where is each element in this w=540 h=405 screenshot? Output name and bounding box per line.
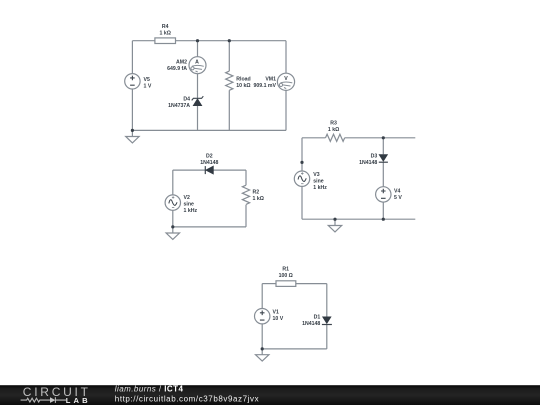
- logo wire + resistor squiggle + diode: [21, 397, 66, 403]
- V2 sine symbol: [169, 200, 177, 206]
- diode D1: [322, 317, 332, 325]
- wire R4 to top-right corner: [176, 40, 287, 42]
- ground (circuit 2): [166, 227, 179, 240]
- voltage source V4: [376, 187, 391, 202]
- svg-text:liam.burns / ICT4: liam.burns / ICT4: [115, 384, 184, 393]
- svg-text:D1: D1: [314, 315, 321, 321]
- diode D3: [379, 155, 388, 163]
- svg-text:1N4148: 1N4148: [302, 321, 320, 327]
- zener diode D4: [192, 96, 204, 105]
- svg-text:10 kΩ: 10 kΩ: [236, 83, 250, 89]
- wire VM1 bottom: [285, 90, 287, 130]
- resistor R1 (box): [276, 281, 296, 287]
- svg-text:10 V: 10 V: [273, 316, 284, 322]
- svg-text:649.9 fA: 649.9 fA: [167, 66, 187, 72]
- junction dot circuit 4: [261, 347, 264, 350]
- wire V4 to bottom: [382, 202, 384, 219]
- wire top rail left of D2: [173, 169, 206, 171]
- sine source V3: [294, 171, 309, 186]
- svg-text:1 V: 1 V: [144, 84, 152, 90]
- ground (circuit 4): [256, 349, 269, 361]
- svg-text:R3: R3: [330, 120, 337, 126]
- voltmeter VM1 meter face: [279, 82, 292, 89]
- svg-text:VM1: VM1: [265, 76, 276, 82]
- svg-text:909.1 mV: 909.1 mV: [254, 83, 277, 89]
- V3 sine symbol: [298, 176, 306, 182]
- wire top rail right of R1: [296, 283, 327, 285]
- svg-text:R4: R4: [162, 24, 169, 30]
- resistor R3 (zigzag): [326, 134, 345, 141]
- V4 plus/minus: [381, 189, 386, 199]
- svg-text:LAB: LAB: [66, 396, 91, 405]
- wire left vertical top: [301, 138, 303, 171]
- resistor Rload (zigzag): [226, 71, 233, 90]
- svg-text:1N4148: 1N4148: [200, 160, 218, 166]
- ammeter AM2 meter face: [191, 65, 204, 72]
- wire top rail right of R3: [345, 137, 416, 139]
- svg-text:V1: V1: [273, 310, 279, 316]
- wire bottom rail: [302, 218, 415, 220]
- wire D3 branch top: [382, 138, 384, 155]
- wire top-left segment to R4: [132, 40, 155, 42]
- wire top rail right of D2: [213, 169, 246, 171]
- V1 plus/minus: [260, 311, 265, 321]
- wire left vertical top: [261, 284, 263, 309]
- V5 plus/minus: [130, 76, 135, 86]
- voltage source V5: [125, 74, 140, 89]
- wire top rail left of R1: [262, 283, 276, 285]
- svg-text:D2: D2: [206, 153, 213, 159]
- svg-text:V5: V5: [144, 77, 150, 83]
- junction dots circuit 1: [196, 39, 199, 42]
- wire right vertical bottom: [326, 325, 328, 349]
- svg-text:1 kΩ: 1 kΩ: [160, 31, 171, 37]
- wire left vertical bottom: [301, 186, 303, 219]
- svg-text:Rload: Rload: [236, 76, 250, 82]
- junction dot circuit 2: [171, 225, 174, 228]
- svg-text:1 kHz: 1 kHz: [313, 185, 327, 191]
- svg-text:D3: D3: [371, 154, 378, 160]
- resistor R4 (box): [155, 38, 176, 44]
- svg-text:1N4148: 1N4148: [359, 160, 377, 166]
- ground (circuit 3): [328, 219, 341, 232]
- svg-text:http://circuitlab.com/c37b8v9a: http://circuitlab.com/c37b8v9az7jvx: [115, 394, 259, 403]
- ammeter AM2: [189, 57, 206, 74]
- wire Rload bottom: [228, 90, 230, 130]
- wire bottom rail: [173, 226, 246, 228]
- resistor R2 (zigzag): [242, 185, 249, 204]
- wire zener to bottom: [197, 106, 199, 131]
- svg-text:V4: V4: [394, 189, 400, 195]
- wire VM1 branch top: [285, 41, 287, 73]
- svg-text:sine: sine: [313, 178, 323, 184]
- svg-text:AM2: AM2: [176, 60, 187, 66]
- sine source V2: [165, 195, 180, 210]
- svg-text:V2: V2: [184, 195, 190, 201]
- wire D3 to V4: [382, 162, 384, 187]
- wire left vertical bottom: [172, 210, 174, 227]
- svg-text:V: V: [284, 76, 288, 82]
- wire left vertical (V5 to bottom): [131, 89, 133, 130]
- svg-text:sine: sine: [184, 201, 194, 207]
- wire right vertical top: [326, 284, 328, 317]
- svg-text:1 kΩ: 1 kΩ: [328, 127, 339, 133]
- svg-text:R1: R1: [282, 267, 289, 273]
- wire top rail left of R3: [302, 137, 326, 139]
- wire bottom rail: [262, 348, 327, 350]
- wire left vertical top: [172, 170, 174, 195]
- svg-text:V3: V3: [313, 172, 319, 178]
- svg-text:A: A: [195, 60, 199, 66]
- svg-text:5 V: 5 V: [394, 195, 402, 201]
- wire ammeter to zener: [197, 74, 199, 98]
- svg-text:R2: R2: [253, 189, 260, 195]
- diode D2: [205, 166, 213, 174]
- svg-text:1 kΩ: 1 kΩ: [253, 196, 264, 202]
- svg-text:D4: D4: [183, 97, 190, 103]
- svg-text:1N4737A: 1N4737A: [168, 103, 190, 109]
- voltmeter VM1: [277, 73, 294, 90]
- wire Rload branch top: [228, 41, 230, 71]
- ground (circuit 1): [126, 130, 139, 143]
- wire left vertical bottom: [261, 324, 263, 349]
- wire bottom rail: [132, 129, 286, 131]
- wire right vertical bottom: [245, 205, 247, 227]
- svg-text:1 kHz: 1 kHz: [184, 208, 198, 214]
- junction dots circuit 3: [382, 136, 385, 139]
- svg-text:100 Ω: 100 Ω: [279, 273, 293, 279]
- wire AM2/D4 branch top: [197, 41, 199, 57]
- voltage source V1: [255, 309, 270, 324]
- wire right vertical top: [245, 170, 247, 185]
- wire left vertical (top half, to V5): [131, 41, 133, 74]
